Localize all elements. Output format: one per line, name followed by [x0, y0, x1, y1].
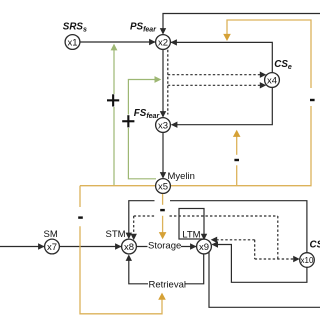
- dashed bus connector: [254, 240, 256, 259]
- node x2: [156, 35, 171, 50]
- label CSe: [274, 59, 292, 71]
- wire x3 to x5: [160, 132, 166, 178]
- wire x7 to x8: [59, 243, 121, 249]
- svg-text:Retrieval: Retrieval: [149, 279, 187, 290]
- orange wire x5 to left: [80, 185, 156, 187]
- svg-text:LTM: LTM: [182, 229, 200, 240]
- dashed wire x2 to x3: [167, 50, 169, 115]
- svg-text:x10: x10: [301, 256, 314, 265]
- dashed wire into x9: [211, 237, 255, 243]
- node x3: [156, 118, 171, 133]
- svg-text:Myelin: Myelin: [168, 171, 195, 182]
- green wire myelin to x1-x2 line, plus sign: [111, 44, 118, 186]
- label FSfear: [134, 108, 161, 120]
- dashed bus top: into x8: [131, 216, 278, 240]
- svg-text:Storage: Storage: [148, 240, 181, 251]
- wire x4 to x3 lower feedback: [171, 87, 272, 128]
- label SM: [44, 229, 58, 240]
- label LTM: [182, 229, 200, 240]
- node x4: [265, 73, 280, 88]
- wire x4 to x2 upper feedback: [170, 39, 272, 72]
- minus below x5: [160, 209, 165, 211]
- minus on left orange wire: [78, 216, 83, 218]
- wire feedback top: from right edge into x2: [160, 14, 320, 35]
- green wire myelin to x2-x3 line, plus sign: [128, 76, 161, 179]
- node x5: [156, 179, 171, 194]
- svg-text:x1: x1: [67, 37, 77, 48]
- label SRSs: [63, 22, 87, 34]
- wire x1 to x2: [80, 39, 156, 45]
- svg-text:x5: x5: [158, 181, 168, 192]
- plus sign 1: [107, 94, 119, 106]
- label PSfear: [130, 22, 157, 34]
- orange wire up to x4-x3 line: [233, 130, 241, 185]
- dashed wire into x10: [255, 256, 300, 262]
- svg-text:CS: CS: [310, 239, 320, 250]
- plus sign 2: [122, 115, 134, 127]
- LTM box: [179, 209, 204, 240]
- svg-text:STM: STM: [106, 229, 126, 240]
- svg-text:SM: SM: [44, 229, 58, 240]
- svg-text:x4: x4: [267, 75, 277, 86]
- orange wire x5 down toward storage: [159, 194, 167, 239]
- wire input into x7: [0, 243, 45, 249]
- dashed wire x3 to x4: [168, 82, 266, 88]
- orange wire x5 right, up right side, to top, arrow into x4-x2 line: [170, 20, 311, 186]
- orange wire left branch down to bottom, arrow up to retrieval: [80, 186, 166, 314]
- node x10: [300, 253, 315, 268]
- wire memory box: x10 down around into x9: [212, 241, 307, 282]
- svg-text:x3: x3: [158, 120, 168, 131]
- svg-text:x2: x2: [158, 37, 168, 48]
- node x9: [197, 239, 212, 254]
- minus on orange wire at x4-x3: [234, 159, 239, 161]
- svg-text:x8: x8: [124, 242, 134, 253]
- wire feedback bottom: x9 down and right off-canvas: [209, 252, 320, 307]
- wire x2 to x3: [160, 49, 166, 117]
- node x1: [65, 35, 80, 50]
- label STM: [106, 229, 126, 240]
- wire x8 to x9 storage: [136, 240, 196, 251]
- wire retrieval x9 to x8: [126, 254, 204, 291]
- minus on right orange wire: [310, 99, 315, 101]
- wire memory box: x10 up across top into x8: [126, 201, 307, 253]
- dashed bus: down right side: [277, 216, 279, 259]
- node x8: [122, 239, 137, 254]
- label CS at x10, clipped by edge: [310, 239, 320, 250]
- svg-text:x7: x7: [47, 242, 57, 253]
- label Myelin: [168, 171, 195, 182]
- node x7: [45, 239, 60, 254]
- dashed wire x2 to x4: [168, 72, 266, 78]
- wire LTM box into x9: [201, 234, 207, 241]
- svg-text:x9: x9: [199, 242, 209, 253]
